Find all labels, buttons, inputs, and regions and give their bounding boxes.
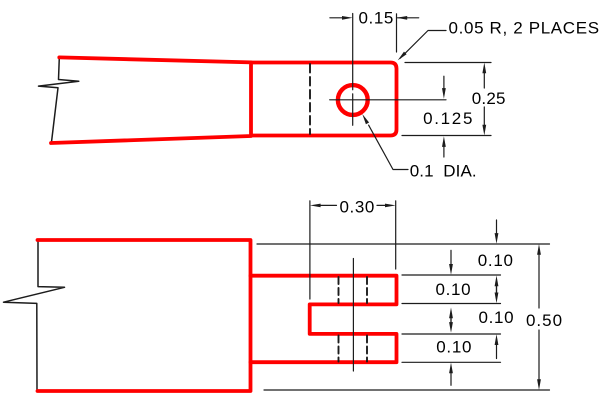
- break line (top view shank): [39, 58, 79, 142]
- hidden line: hole left edge upper prong: [338, 277, 340, 303]
- extension line top prong upper edge: [402, 274, 501, 276]
- extension line top of bar: [257, 243, 550, 245]
- dimension 0.30: [310, 201, 396, 299]
- svg-text:0.05 R, 2 PLACES: 0.05 R, 2 PLACES: [449, 18, 600, 37]
- dimension 0.10 fourth (arrows): [449, 316, 453, 385]
- part outline: tapered shank (top view): [51, 57, 251, 143]
- svg-text:0.10: 0.10: [436, 338, 472, 357]
- part outline: tab end with rounded corners (top view): [251, 63, 397, 136]
- leader 0.1 DIA: [362, 114, 408, 170]
- centerline vertical (bottom view): [352, 259, 354, 372]
- dimension 0.125: [442, 76, 446, 157]
- dimension 0.25: [402, 63, 491, 136]
- svg-text:0.10: 0.10: [435, 280, 471, 299]
- dimension 0.15: [330, 14, 419, 52]
- hidden line: hole right edge lower prong: [366, 336, 368, 362]
- hidden line: hole right edge upper prong: [366, 277, 368, 303]
- svg-text:0.10: 0.10: [478, 308, 514, 327]
- svg-text:0.15: 0.15: [358, 9, 394, 28]
- break line (bottom view shank): [4, 240, 65, 391]
- dimension 0.10 third (arrows): [495, 284, 499, 359]
- svg-text:0.1 DIA.: 0.1 DIA.: [410, 161, 477, 180]
- hidden line: slot bottom (top view): [309, 64, 311, 134]
- extension line slot upper edge: [402, 303, 501, 305]
- centerline horizontal through hole: [330, 99, 446, 101]
- svg-text:0.30: 0.30: [339, 197, 375, 216]
- hidden line: hole left edge lower prong: [338, 336, 340, 362]
- part outline: shank bar (bottom view): [38, 240, 251, 391]
- extension line lower prong bottom edge: [402, 361, 501, 363]
- dimension 0.10 first (arrows): [495, 220, 499, 295]
- svg-text:0.50: 0.50: [526, 311, 563, 330]
- part outline: slotted clevis prongs (bottom view): [251, 276, 397, 363]
- svg-text:0.25: 0.25: [472, 89, 506, 108]
- centerline vertical through hole: [352, 14, 354, 126]
- dimension 0.50: [537, 244, 541, 390]
- leader 0.05 R: [398, 31, 446, 61]
- svg-text:0.10: 0.10: [478, 251, 514, 270]
- dimension 0.10 second (arrows): [449, 250, 453, 324]
- extension line bottom of bar: [264, 389, 550, 391]
- svg-text:0.125: 0.125: [423, 109, 474, 128]
- extension line slot lower edge: [402, 333, 501, 335]
- hole 0.1 dia (top view): [338, 85, 368, 115]
